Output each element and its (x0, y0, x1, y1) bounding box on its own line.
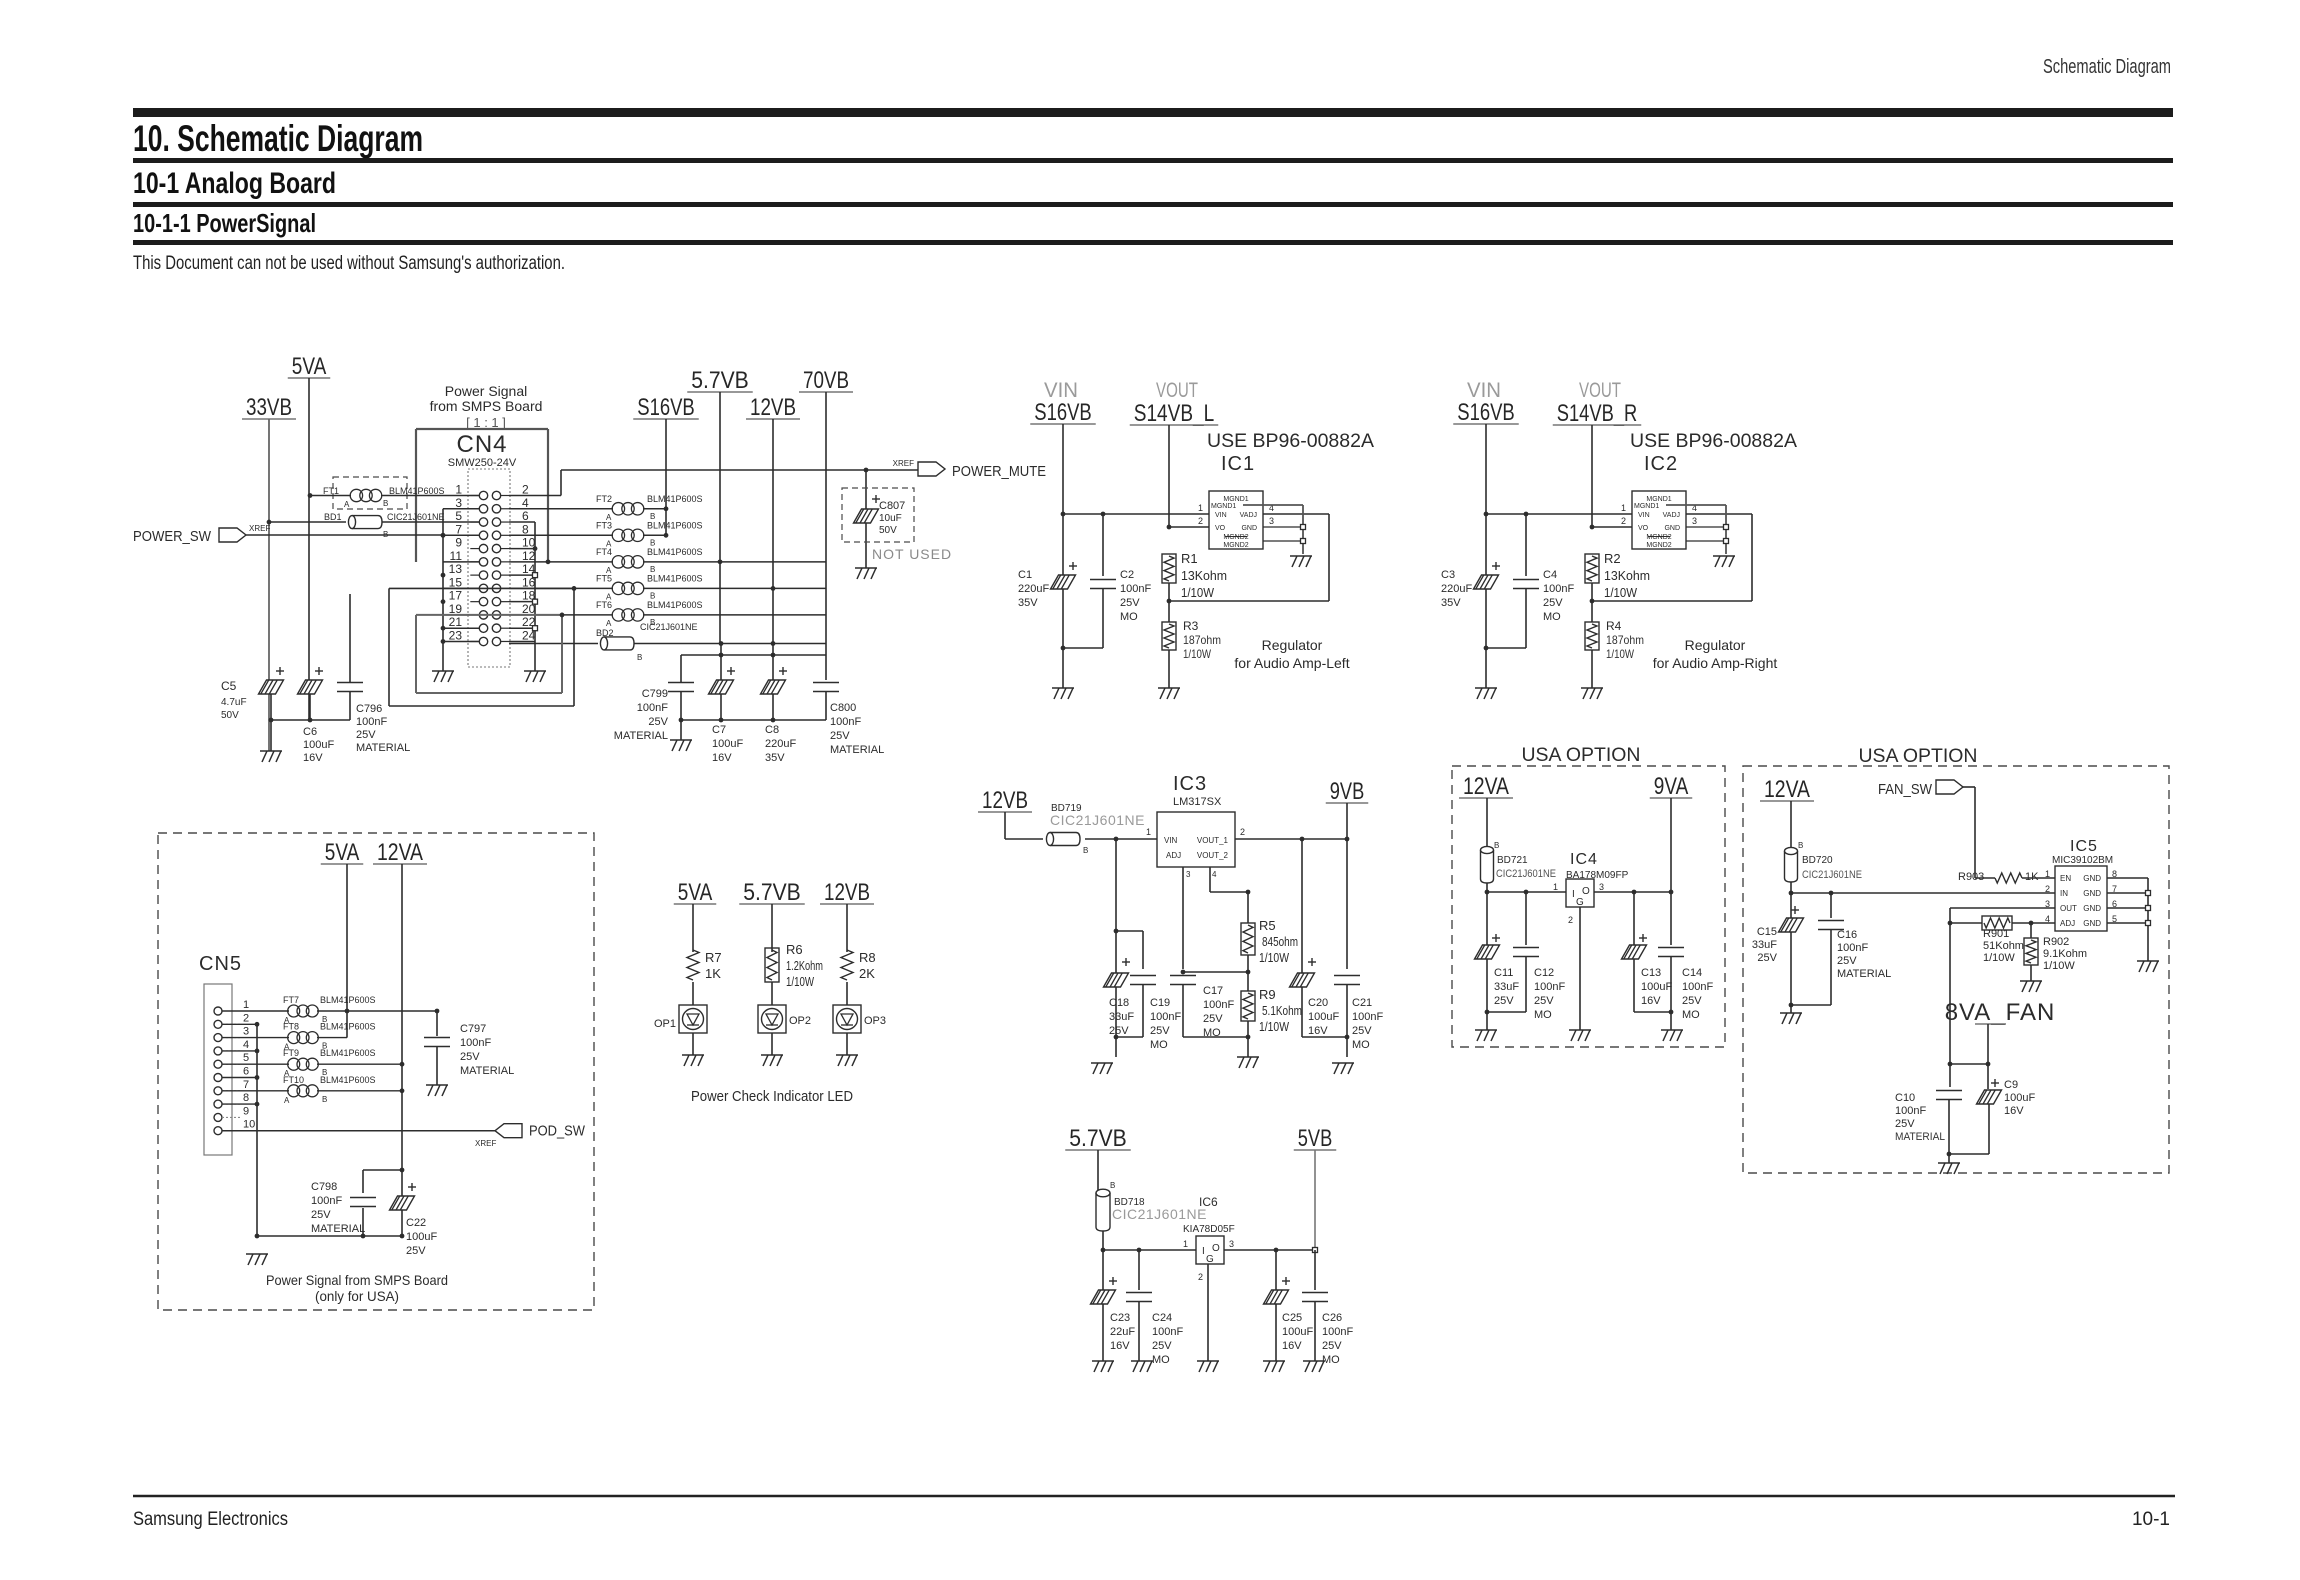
svg-text:5: 5 (243, 1052, 249, 1064)
svg-text:IC2: IC2 (1644, 453, 1678, 475)
svg-text:C4: C4 (1543, 569, 1557, 581)
svg-text:OP1: OP1 (654, 1018, 676, 1030)
svg-text:25V: 25V (1203, 1013, 1223, 1025)
svg-text:C9: C9 (2004, 1079, 2018, 1091)
svg-text:Power Check Indicator LED: Power Check Indicator LED (691, 1088, 853, 1105)
svg-text:3: 3 (1269, 516, 1274, 526)
svg-text:1/10W: 1/10W (1259, 950, 1290, 965)
svg-text:[ 1 : 1 ]: [ 1 : 1 ] (466, 415, 506, 430)
svg-text:100nF: 100nF (1895, 1105, 1926, 1117)
svg-text:33uF: 33uF (1752, 939, 1777, 951)
svg-text:6: 6 (522, 509, 529, 523)
svg-text:BLM41P600S: BLM41P600S (647, 547, 703, 557)
svg-text:3: 3 (1692, 516, 1697, 526)
svg-text:R901: R901 (1983, 928, 2009, 940)
svg-text:100uF: 100uF (2004, 1092, 2035, 1104)
svg-text:1: 1 (243, 999, 249, 1011)
svg-text:10. Schematic Diagram: 10. Schematic Diagram (133, 118, 423, 159)
svg-text:C12: C12 (1534, 967, 1554, 979)
svg-text:21: 21 (449, 615, 463, 629)
svg-text:B: B (1494, 841, 1499, 850)
svg-text:POWER_SW: POWER_SW (133, 528, 212, 545)
svg-text:XREF: XREF (475, 1139, 496, 1148)
svg-text:12VA: 12VA (1764, 776, 1810, 803)
svg-text:100uF: 100uF (1641, 981, 1672, 993)
svg-text:22uF: 22uF (1110, 1326, 1135, 1338)
svg-text:ADJ: ADJ (1166, 851, 1181, 860)
svg-text:16V: 16V (1110, 1340, 1130, 1352)
svg-text:3: 3 (1186, 870, 1191, 879)
svg-text:OP3: OP3 (864, 1015, 886, 1027)
svg-text:8: 8 (243, 1092, 249, 1104)
svg-text:1/10W: 1/10W (1983, 952, 2015, 964)
svg-text:5.7VB: 5.7VB (1069, 1125, 1127, 1152)
svg-text:C19: C19 (1150, 997, 1170, 1009)
svg-text:100uF: 100uF (1282, 1326, 1313, 1338)
svg-text:MATERIAL: MATERIAL (614, 730, 668, 742)
svg-text:Power Signal from SMPS Board: Power Signal from SMPS Board (266, 1272, 448, 1288)
svg-text:4: 4 (243, 1039, 249, 1051)
svg-text:1/10W: 1/10W (2043, 960, 2075, 972)
svg-text:1: 1 (2045, 869, 2050, 879)
svg-text:16V: 16V (1282, 1340, 1302, 1352)
svg-text:9VB: 9VB (1330, 778, 1365, 805)
svg-text:CIC21J601NE: CIC21J601NE (1112, 1206, 1207, 1222)
svg-text:MGND1: MGND1 (1646, 496, 1671, 503)
svg-text:51Kohm: 51Kohm (1983, 940, 2024, 952)
svg-text:MIC39102BM: MIC39102BM (2052, 855, 2113, 866)
svg-text:5VA: 5VA (678, 879, 713, 906)
svg-text:1: 1 (1621, 503, 1626, 513)
svg-text:5VA: 5VA (325, 839, 360, 866)
svg-text:100nF: 100nF (1543, 583, 1574, 595)
svg-text:1/10W: 1/10W (1183, 647, 1212, 661)
svg-text:13: 13 (449, 562, 463, 576)
svg-text:S14VB_R: S14VB_R (1557, 400, 1638, 427)
svg-text:25V: 25V (1534, 995, 1554, 1007)
svg-text:C10: C10 (1895, 1092, 1915, 1104)
svg-text:VIN: VIN (1215, 512, 1227, 519)
svg-text:for Audio Amp-Left: for Audio Amp-Left (1234, 655, 1349, 671)
svg-text:MO: MO (1322, 1354, 1340, 1366)
svg-text:2: 2 (1568, 915, 1573, 925)
svg-text:25V: 25V (1895, 1118, 1915, 1130)
svg-text:EN: EN (2060, 874, 2071, 883)
svg-text:8VA_FAN: 8VA_FAN (1945, 999, 2056, 1026)
svg-text:25V: 25V (1152, 1340, 1172, 1352)
svg-text:2K: 2K (859, 966, 875, 981)
svg-text:MATERIAL: MATERIAL (830, 744, 884, 756)
svg-text:R9: R9 (1259, 987, 1276, 1002)
svg-text:100uF: 100uF (303, 739, 334, 751)
svg-text:FT8: FT8 (283, 1022, 299, 1032)
svg-text:BLM41P600S: BLM41P600S (320, 1075, 376, 1085)
svg-text:FT1: FT1 (323, 486, 339, 496)
svg-text:GND: GND (1664, 525, 1680, 532)
svg-text:B: B (1110, 1181, 1115, 1190)
svg-text:13Kohm: 13Kohm (1604, 568, 1650, 583)
svg-text:MO: MO (1682, 1009, 1700, 1021)
svg-text:O: O (1212, 1243, 1220, 1254)
svg-text:1: 1 (1183, 1239, 1188, 1249)
svg-text:BD721: BD721 (1497, 855, 1528, 866)
svg-text:187ohm: 187ohm (1606, 633, 1644, 647)
svg-text:16V: 16V (303, 752, 323, 764)
svg-text:100nF: 100nF (1150, 1011, 1181, 1023)
svg-text:B: B (1083, 846, 1088, 855)
svg-text:2: 2 (1240, 827, 1245, 837)
svg-text:8: 8 (522, 522, 529, 536)
svg-text:2: 2 (1198, 1272, 1203, 1282)
svg-text:2: 2 (1621, 516, 1626, 526)
svg-text:C799: C799 (642, 688, 668, 700)
svg-text:FT3: FT3 (596, 520, 612, 530)
svg-text:1K: 1K (705, 966, 721, 981)
svg-text:CIC21J601NE: CIC21J601NE (387, 512, 445, 522)
svg-text:C24: C24 (1152, 1312, 1172, 1324)
svg-text:IC5: IC5 (2070, 838, 2098, 855)
svg-text:845ohm: 845ohm (1262, 934, 1298, 949)
svg-text:C25: C25 (1282, 1312, 1302, 1324)
svg-text:BD1: BD1 (324, 512, 342, 522)
svg-text:R8: R8 (859, 950, 876, 965)
svg-text:5.7VB: 5.7VB (743, 879, 801, 906)
svg-text:GND: GND (2083, 904, 2101, 913)
svg-text:100uF: 100uF (1308, 1011, 1339, 1023)
svg-text:CIC21J601NE: CIC21J601NE (1050, 812, 1145, 828)
svg-text:100nF: 100nF (637, 702, 668, 714)
svg-text:VOUT: VOUT (1156, 379, 1198, 402)
svg-text:POWER_MUTE: POWER_MUTE (952, 463, 1046, 480)
svg-text:5.1Kohm: 5.1Kohm (1262, 1003, 1302, 1018)
svg-text:100nF: 100nF (1534, 981, 1565, 993)
svg-text:16V: 16V (712, 752, 732, 764)
svg-text:MO: MO (1352, 1039, 1370, 1051)
svg-text:FT7: FT7 (283, 995, 299, 1005)
svg-text:10-1-1 PowerSignal: 10-1-1 PowerSignal (133, 208, 316, 238)
svg-text:19: 19 (449, 602, 463, 616)
svg-text:100nF: 100nF (1322, 1326, 1353, 1338)
svg-text:C1: C1 (1018, 569, 1032, 581)
svg-text:MO: MO (1120, 611, 1138, 623)
svg-text:9.1Kohm: 9.1Kohm (2043, 948, 2087, 960)
svg-text:BLM41P600S: BLM41P600S (320, 1048, 376, 1058)
svg-text:C2: C2 (1120, 569, 1134, 581)
svg-text:VO: VO (1638, 525, 1649, 532)
svg-text:C15: C15 (1757, 926, 1777, 938)
svg-text:LM317SX: LM317SX (1173, 796, 1222, 808)
svg-text:C5: C5 (221, 679, 237, 693)
svg-text:16V: 16V (1308, 1025, 1328, 1037)
svg-text:25V: 25V (460, 1051, 480, 1063)
svg-text:for Audio Amp-Right: for Audio Amp-Right (1653, 655, 1778, 671)
svg-text:VADJ: VADJ (1240, 512, 1257, 519)
svg-text:POD_SW: POD_SW (529, 1123, 586, 1140)
svg-text:C6: C6 (303, 726, 317, 738)
svg-text:25V: 25V (406, 1245, 426, 1257)
svg-text:9: 9 (455, 536, 462, 550)
svg-text:100nF: 100nF (830, 716, 861, 728)
svg-text:Power Signal: Power Signal (445, 383, 528, 399)
svg-text:35V: 35V (1441, 597, 1461, 609)
svg-text:35V: 35V (1018, 597, 1038, 609)
svg-text:MGND2: MGND2 (1646, 542, 1671, 549)
svg-text:23: 23 (449, 628, 463, 642)
svg-text:187ohm: 187ohm (1183, 633, 1221, 647)
svg-text:25V: 25V (1150, 1025, 1170, 1037)
svg-text:ADJ: ADJ (2060, 919, 2075, 928)
svg-text:FT5: FT5 (596, 573, 612, 583)
svg-text:C8: C8 (765, 724, 779, 736)
svg-text:4: 4 (1212, 870, 1217, 879)
svg-text:25V: 25V (356, 729, 376, 741)
svg-text:11: 11 (450, 549, 463, 563)
svg-text:25V: 25V (1682, 995, 1702, 1007)
svg-text:1: 1 (1198, 503, 1203, 513)
svg-text:7: 7 (455, 522, 462, 536)
svg-text:220uF: 220uF (1441, 583, 1472, 595)
svg-text:Regulator: Regulator (1262, 637, 1323, 653)
svg-text:100nF: 100nF (1152, 1326, 1183, 1338)
svg-text:1/10W: 1/10W (786, 974, 815, 989)
svg-text:7: 7 (243, 1079, 249, 1091)
svg-text:XREF: XREF (893, 459, 914, 468)
svg-text:BLM41P600S: BLM41P600S (647, 494, 703, 504)
svg-text:MO: MO (1152, 1354, 1170, 1366)
svg-text:9: 9 (243, 1105, 249, 1117)
svg-text:MGND2: MGND2 (1223, 534, 1248, 541)
svg-text:1: 1 (1553, 882, 1558, 892)
svg-text:C20: C20 (1308, 997, 1328, 1009)
svg-text:USA OPTION: USA OPTION (1859, 746, 1978, 767)
svg-text:MATERIAL: MATERIAL (311, 1223, 365, 1235)
svg-text:4.7uF: 4.7uF (221, 697, 247, 708)
svg-text:BLM41P600S: BLM41P600S (647, 600, 703, 610)
svg-text:25V: 25V (648, 716, 668, 728)
svg-text:2: 2 (2045, 884, 2050, 894)
svg-text:MATERIAL: MATERIAL (1895, 1131, 1945, 1143)
svg-text:16V: 16V (1641, 995, 1661, 1007)
svg-text:5VA: 5VA (292, 353, 327, 380)
svg-text:Regulator: Regulator (1685, 637, 1746, 653)
svg-text:100nF: 100nF (1203, 999, 1234, 1011)
svg-text:6: 6 (243, 1066, 249, 1078)
svg-text:B: B (1798, 841, 1803, 850)
svg-text:5: 5 (455, 509, 462, 523)
svg-text:C800: C800 (830, 702, 856, 714)
svg-text:10: 10 (243, 1119, 255, 1131)
svg-text:25V: 25V (1494, 995, 1514, 1007)
svg-text:C21: C21 (1352, 997, 1372, 1009)
svg-text:1/10W: 1/10W (1606, 647, 1635, 661)
svg-text:R1: R1 (1181, 551, 1198, 566)
svg-text:XREF: XREF (249, 524, 270, 533)
svg-text:MATERIAL: MATERIAL (356, 742, 410, 754)
svg-text:C26: C26 (1322, 1312, 1342, 1324)
svg-text:C807: C807 (879, 500, 905, 512)
svg-text:USE BP96-00882A: USE BP96-00882A (1630, 431, 1797, 452)
svg-text:1: 1 (1146, 827, 1151, 837)
svg-text:C14: C14 (1682, 967, 1702, 979)
svg-text:I: I (1202, 1246, 1205, 1257)
svg-text:CIC21J601NE: CIC21J601NE (1496, 868, 1556, 880)
svg-text:SMW250-24V: SMW250-24V (448, 457, 517, 469)
svg-text:FT9: FT9 (283, 1048, 299, 1058)
svg-text:from SMPS Board: from SMPS Board (430, 398, 543, 414)
svg-text:1/10W: 1/10W (1181, 585, 1215, 600)
svg-text:CN4: CN4 (456, 431, 507, 458)
svg-text:12VB: 12VB (750, 394, 796, 421)
svg-text:220uF: 220uF (1018, 583, 1049, 595)
svg-text:33VB: 33VB (246, 394, 292, 421)
svg-text:25V: 25V (1120, 597, 1140, 609)
svg-text:C7: C7 (712, 724, 726, 736)
svg-text:12VA: 12VA (1463, 773, 1509, 800)
svg-text:B: B (383, 499, 388, 508)
svg-text:S14VB_L: S14VB_L (1134, 400, 1215, 427)
svg-text:IC3: IC3 (1173, 773, 1207, 795)
svg-text:VADJ: VADJ (1663, 512, 1680, 519)
svg-text:This Document can not be used: This Document can not be used without Sa… (133, 253, 565, 274)
svg-text:220uF: 220uF (765, 738, 796, 750)
svg-text:1/10W: 1/10W (1604, 585, 1638, 600)
svg-text:16V: 16V (2004, 1105, 2024, 1117)
svg-text:MGND2: MGND2 (1646, 534, 1671, 541)
svg-text:G: G (1206, 1254, 1214, 1265)
svg-text:B: B (322, 1095, 327, 1104)
svg-text:33uF: 33uF (1494, 981, 1519, 993)
svg-text:100nF: 100nF (1837, 942, 1868, 954)
svg-text:25V: 25V (1543, 597, 1563, 609)
svg-text:GND: GND (2083, 919, 2101, 928)
svg-text:2: 2 (522, 483, 529, 497)
svg-text:25V: 25V (830, 730, 850, 742)
svg-text:70VB: 70VB (803, 367, 849, 394)
svg-text:C11: C11 (1494, 967, 1513, 979)
svg-text:CN5: CN5 (199, 953, 242, 975)
svg-text:3: 3 (243, 1026, 249, 1038)
svg-text:A: A (344, 500, 350, 509)
svg-text:15: 15 (449, 575, 463, 589)
svg-text:2: 2 (1198, 516, 1203, 526)
svg-text:100nF: 100nF (356, 716, 387, 728)
svg-text:10-1: 10-1 (2132, 1509, 2170, 1530)
svg-text:VIN: VIN (1164, 836, 1178, 845)
svg-text:R902: R902 (2043, 936, 2069, 948)
svg-text:25V: 25V (1837, 955, 1857, 967)
svg-text:C3: C3 (1441, 569, 1455, 581)
svg-text:KIA78D05F: KIA78D05F (1183, 1224, 1235, 1235)
svg-text:BD720: BD720 (1802, 855, 1833, 866)
svg-text:Schematic Diagram: Schematic Diagram (2043, 56, 2171, 78)
svg-text:100uF: 100uF (712, 738, 743, 750)
svg-text:3: 3 (1229, 1239, 1234, 1249)
svg-text:VOUT_1: VOUT_1 (1197, 836, 1229, 845)
svg-text:GND: GND (1241, 525, 1257, 532)
svg-text:4: 4 (522, 496, 529, 510)
svg-text:17: 17 (449, 589, 463, 603)
svg-text:C797: C797 (460, 1023, 486, 1035)
svg-text:10-1 Analog Board: 10-1 Analog Board (133, 167, 336, 200)
svg-text:CIC21J601NE: CIC21J601NE (1802, 869, 1862, 881)
svg-text:MGND1: MGND1 (1211, 503, 1236, 510)
svg-text:25V: 25V (1322, 1340, 1342, 1352)
svg-text:FT2: FT2 (596, 494, 612, 504)
svg-text:Samsung Electronics: Samsung Electronics (133, 1509, 288, 1530)
svg-text:VOUT: VOUT (1579, 379, 1621, 402)
svg-text:100uF: 100uF (406, 1231, 437, 1243)
svg-text:BLM41P600S: BLM41P600S (647, 520, 703, 530)
svg-text:USE BP96-00882A: USE BP96-00882A (1207, 431, 1374, 452)
svg-text:33uF: 33uF (1109, 1011, 1134, 1023)
svg-text:R5: R5 (1259, 918, 1276, 933)
svg-text:100nF: 100nF (1120, 583, 1151, 595)
svg-text:12: 12 (522, 549, 536, 563)
svg-text:50V: 50V (221, 710, 239, 721)
svg-text:100nF: 100nF (1352, 1011, 1383, 1023)
svg-text:MGND1: MGND1 (1223, 496, 1248, 503)
svg-text:VIN: VIN (1638, 512, 1650, 519)
svg-text:2: 2 (243, 1012, 249, 1024)
svg-text:G: G (1576, 897, 1584, 908)
svg-text:25V: 25V (1757, 952, 1777, 964)
svg-text:12VB: 12VB (824, 879, 870, 906)
svg-text:C796: C796 (356, 703, 382, 715)
svg-text:FAN_SW: FAN_SW (1878, 781, 1933, 798)
svg-text:25V: 25V (311, 1209, 331, 1221)
svg-text:OUT: OUT (2060, 904, 2077, 913)
svg-text:FT10: FT10 (283, 1075, 304, 1085)
svg-text:5.7VB: 5.7VB (691, 367, 749, 394)
svg-text:MO: MO (1543, 611, 1561, 623)
svg-text:FT6: FT6 (596, 600, 612, 610)
svg-text:VOUT_2: VOUT_2 (1197, 851, 1229, 860)
svg-text:25V: 25V (1109, 1025, 1129, 1037)
svg-text:B: B (637, 653, 642, 662)
svg-text:25V: 25V (1352, 1025, 1372, 1037)
svg-text:50V: 50V (879, 525, 897, 536)
svg-text:12VA: 12VA (377, 839, 423, 866)
svg-text:MGND1: MGND1 (1634, 503, 1659, 510)
svg-text:35V: 35V (765, 752, 785, 764)
svg-text:VO: VO (1215, 525, 1226, 532)
svg-text:I: I (1572, 889, 1575, 900)
svg-text:S16VB: S16VB (1034, 399, 1092, 426)
svg-text:S16VB: S16VB (637, 394, 695, 421)
svg-text:R7: R7 (705, 950, 722, 965)
svg-text:C23: C23 (1110, 1312, 1130, 1324)
svg-text:BLM41P600S: BLM41P600S (320, 995, 376, 1005)
svg-text:MATERIAL: MATERIAL (1837, 968, 1891, 980)
svg-text:C17: C17 (1203, 985, 1223, 997)
svg-text:BLM41P600S: BLM41P600S (647, 573, 703, 583)
svg-text:13Kohm: 13Kohm (1181, 568, 1227, 583)
svg-text:5VB: 5VB (1298, 1125, 1333, 1152)
svg-text:IC6: IC6 (1199, 1195, 1218, 1209)
svg-text:(only for USA): (only for USA) (315, 1288, 399, 1304)
svg-text:1.2Kohm: 1.2Kohm (786, 958, 823, 973)
svg-text:1K: 1K (2025, 871, 2039, 883)
svg-text:9VA: 9VA (1654, 773, 1689, 800)
svg-text:100nF: 100nF (460, 1037, 491, 1049)
svg-text:IC1: IC1 (1221, 453, 1255, 475)
svg-text:MO: MO (1150, 1039, 1168, 1051)
svg-text:MATERIAL: MATERIAL (460, 1065, 514, 1077)
svg-text:3: 3 (1599, 882, 1604, 892)
svg-text:C18: C18 (1109, 997, 1129, 1009)
svg-text:USA OPTION: USA OPTION (1522, 745, 1641, 766)
svg-text:FT4: FT4 (596, 547, 612, 557)
